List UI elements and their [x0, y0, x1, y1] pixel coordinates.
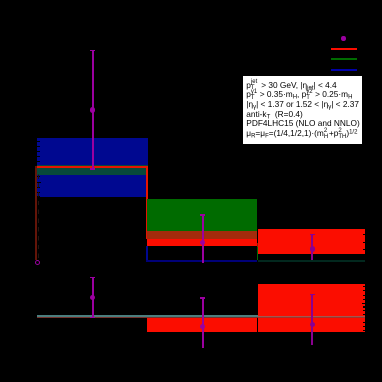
ratio teal unity line — [37, 315, 365, 316]
data bin2: error bar — [200, 214, 205, 215]
white cuts text box — [243, 76, 362, 145]
legend: red line — [331, 48, 357, 50]
clipped purple marker at frame corner — [35, 260, 40, 265]
red central line bin1 — [36, 166, 148, 168]
black log ticks over blue box (left axis) — [37, 141, 40, 142]
legend: green line — [331, 58, 357, 60]
ratio data bin1 — [90, 277, 95, 278]
red error box bin2 — [147, 239, 257, 247]
frame bottom blue line bin2 — [146, 260, 257, 262]
dark red left edge vertical — [35, 166, 37, 260]
data bin2: marker — [200, 240, 205, 245]
legend: data dot — [341, 36, 346, 41]
legend: blue line — [331, 69, 357, 71]
ratio data bin3 — [310, 294, 315, 295]
frame bottom blue+green line bin3 — [258, 260, 366, 262]
ratio panel: red box bin2 — [147, 318, 257, 332]
red error box bin3 — [258, 229, 366, 254]
dark red step vertical bin2->3 — [257, 243, 259, 247]
green error box bin2 — [147, 199, 257, 231]
data bin1: marker — [90, 107, 95, 112]
teal band bin1 (green over blue) — [37, 165, 148, 175]
data bin3: marker — [310, 246, 315, 251]
black ticks right edge over ratio bin3 box — [363, 286, 365, 287]
dashed dark vertical line — [38, 170, 39, 259]
blue error box bin1 (main panel) — [37, 138, 148, 197]
ratio maroon line — [37, 317, 365, 318]
unity line gray overlay over bin3 red box — [258, 316, 366, 317]
data bin3: error bar — [310, 234, 315, 235]
maroon overlap band bin2 — [147, 231, 257, 238]
green step vertical bin2->3 — [257, 247, 259, 261]
data bin1: error bar — [90, 50, 95, 51]
black ticks right edge over bin3 box (main) — [363, 234, 365, 235]
ratio panel: red box bin3 — [258, 284, 366, 332]
ratio data bin2 — [200, 297, 205, 298]
blue step vertical bin1->2 — [146, 246, 148, 262]
red step vertical bin1->2 — [146, 166, 148, 238]
